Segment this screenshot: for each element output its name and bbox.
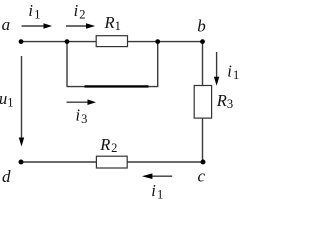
- wire: parallel branch left vertical: [66, 42, 68, 87]
- svg-text:a: a: [2, 15, 11, 34]
- node: junction left of R1 parallel branch: [65, 39, 70, 44]
- current arrow i2: [66, 23, 95, 29]
- wire: top a-b: [21, 41, 203, 43]
- node c: [201, 160, 206, 165]
- node: junction right of R1 parallel branch: [155, 39, 160, 44]
- wire: short-circuit bold segment: [85, 85, 149, 87]
- node b: [200, 39, 205, 44]
- resistor R3: [194, 86, 233, 119]
- node a (terminal dot): [19, 39, 24, 44]
- node d (terminal dot): [19, 160, 24, 165]
- current arrow i1 (top left): [22, 23, 52, 29]
- current arrow i1 (bottom, leftward): [142, 173, 172, 179]
- resistor R1: [96, 13, 127, 46]
- resistor R2: [96, 135, 127, 168]
- wire: parallel branch bottom: [67, 86, 159, 88]
- wire: parallel branch right vertical: [157, 42, 159, 87]
- wire: right side b-c: [202, 42, 204, 162]
- wire: bottom d-c: [21, 161, 203, 163]
- voltage arrow u1 (a to d): [19, 56, 24, 147]
- current arrow i3: [67, 99, 97, 105]
- svg-text:b: b: [197, 17, 206, 36]
- svg-text:c: c: [198, 166, 206, 185]
- svg-text:d: d: [2, 167, 11, 186]
- current arrow i1 (right, downward): [214, 52, 219, 86]
